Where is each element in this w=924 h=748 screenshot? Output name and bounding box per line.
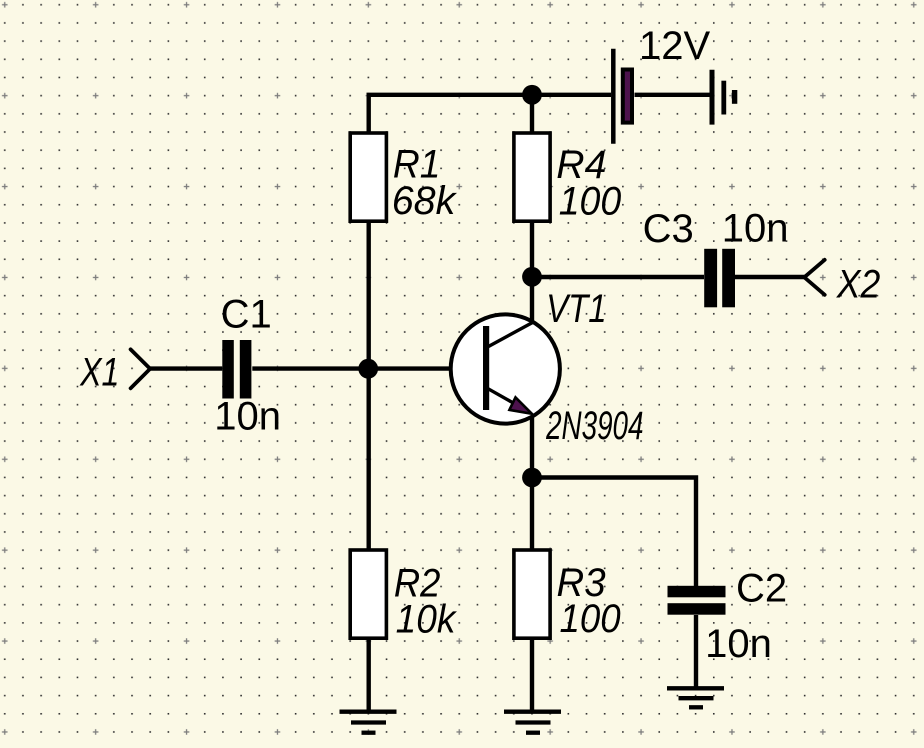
svg-text:12V: 12V: [639, 24, 710, 68]
svg-text:68k: 68k: [392, 179, 458, 223]
svg-text:C1: C1: [221, 292, 272, 336]
svg-text:C2: C2: [736, 567, 787, 611]
svg-text:VT1: VT1: [546, 286, 606, 331]
svg-text:100: 100: [560, 597, 622, 642]
svg-text:10n: 10n: [214, 395, 281, 439]
svg-text:X1: X1: [79, 349, 119, 394]
svg-text:X2: X2: [836, 263, 880, 307]
svg-text:10n: 10n: [705, 622, 772, 666]
svg-text:C3: C3: [643, 207, 694, 251]
svg-text:10k: 10k: [396, 597, 457, 642]
svg-text:10n: 10n: [722, 207, 789, 251]
svg-text:2N3904: 2N3904: [545, 404, 643, 448]
svg-text:100: 100: [559, 179, 622, 223]
